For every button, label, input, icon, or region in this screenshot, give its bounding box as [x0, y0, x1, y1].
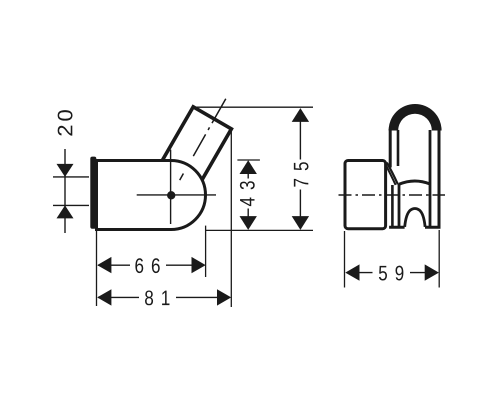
- dim 20 lower arrow: [57, 205, 74, 218]
- dim 20 upper arrow: [57, 164, 74, 177]
- wall plate bar: [90, 157, 96, 229]
- label 66: [135, 258, 159, 273]
- fillet curve outer (plate to saddle): [387, 163, 398, 185]
- saddle back side left: [398, 184, 401, 226]
- dim 66 left arrow: [97, 257, 111, 273]
- tube outer wall left lower: [391, 185, 394, 227]
- fillet curve inner (plate to saddle): [386, 165, 396, 185]
- dim 81 left arrow: [97, 289, 111, 305]
- dim 20 upper tick: [53, 176, 89, 178]
- tube outer wall left upper: [389, 129, 392, 168]
- tube inner wall right / saddle back side right: [429, 130, 432, 226]
- extension line body left edge: [96, 231, 98, 306]
- saddle back arc (seen through bore): [399, 181, 430, 184]
- crosshair vertical: [170, 150, 172, 224]
- pivot dot: [167, 191, 175, 199]
- dim 59 line: [347, 272, 437, 274]
- angled cylinder (pivot tube): [156, 107, 232, 194]
- dim 81 right arrow: [217, 289, 231, 305]
- extension line from cylinder top (75 top): [193, 106, 313, 108]
- extension line body arc right: [205, 226, 207, 277]
- dim 43 bottom arrow: [240, 216, 257, 230]
- centerline dash-dot: [339, 194, 446, 196]
- tube inner wall left (upper): [397, 130, 400, 166]
- crosshair horizontal: [137, 194, 216, 196]
- dim 43 top arrow: [240, 160, 257, 174]
- label 75: [294, 162, 309, 186]
- dim 75 line: [299, 110, 301, 228]
- dim 75 top arrow: [292, 108, 309, 122]
- dim 20 line: [64, 149, 66, 233]
- cylinder axis dash-dot centerline: [180, 99, 226, 180]
- label 59: [379, 266, 404, 281]
- dim 59 left arrow: [345, 264, 359, 280]
- dim 20 lower tick: [53, 204, 89, 206]
- dim 81 line: [98, 296, 229, 298]
- dim 75 bottom arrow: [292, 216, 309, 230]
- label 20: [58, 110, 73, 135]
- extension line tube right: [438, 230, 440, 288]
- extension line from body bottom to right: [205, 229, 313, 231]
- dim 66 line: [98, 264, 204, 266]
- saddle front arch: [405, 209, 425, 227]
- extension line cylinder right corner: [230, 130, 232, 307]
- extension line plate left: [344, 231, 346, 288]
- dim 59 right arrow: [425, 264, 439, 280]
- tube top rim (filled half annulus): [389, 104, 442, 130]
- label 43: [240, 181, 255, 206]
- tube outer wall right: [438, 129, 441, 227]
- dim 43 line: [247, 162, 249, 227]
- wall plate: [345, 161, 386, 229]
- label 81: [145, 290, 169, 305]
- tube bottom edges: [389, 226, 440, 229]
- holder body (rounded): [97, 161, 206, 230]
- dim 66 right arrow: [192, 257, 206, 273]
- tick 43 top: [237, 159, 260, 161]
